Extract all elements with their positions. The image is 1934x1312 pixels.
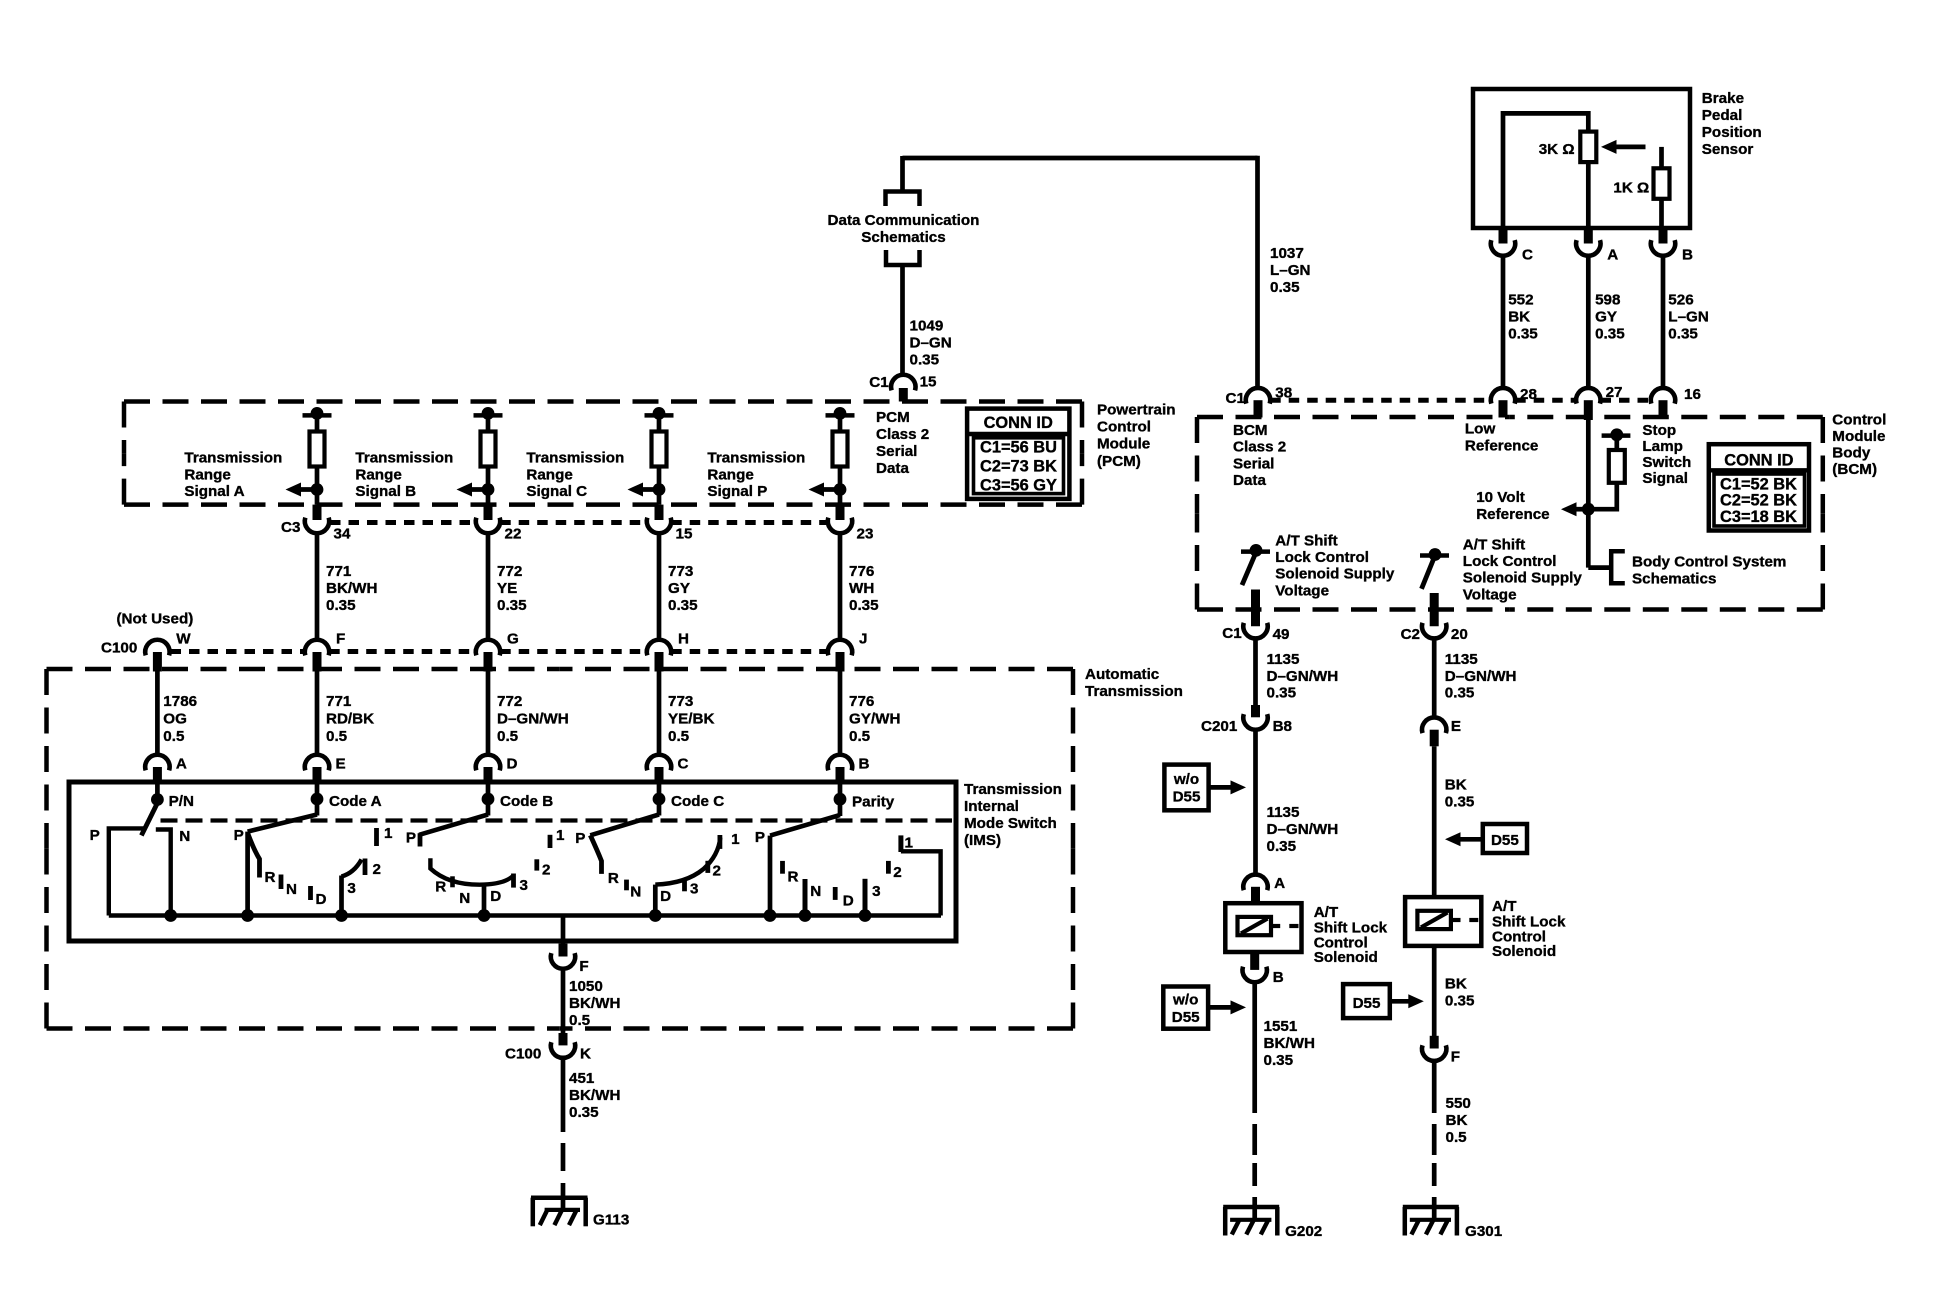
svg-text:49: 49 [1273,626,1290,643]
wire 451 dashed segment [561,1143,566,1171]
label: (PCM) [1097,453,1141,470]
label: wire 773 [668,693,693,710]
svg-text:C1: C1 [1226,390,1246,407]
label: wire 773 [668,563,693,580]
P contact tick (Code B) [418,833,423,846]
svg-text:K: K [580,1046,591,1063]
connector IMS pin F cup [551,953,575,969]
node: Code A input dot [311,793,324,806]
svg-text:Powertrain: Powertrain [1097,402,1176,419]
svg-text:Body: Body [1832,445,1871,462]
node: supply 1 dot [1250,544,1263,557]
IMS internal dashed line [161,818,953,822]
arrow: Transmission Range Signal A [286,483,318,497]
label: size 0.35 (bot) [1445,993,1475,1010]
svg-text:B: B [859,756,870,773]
wire 550 dashed seg 1 [1432,1124,1437,1155]
label: A/T Shift (1) [1275,532,1337,549]
svg-text:BK/WH: BK/WH [1264,1035,1315,1052]
label: w/o (1) [1173,771,1199,788]
label: Range [355,467,401,484]
label: color BK (top) [1445,777,1467,794]
label: w/o (2) [1172,992,1198,1009]
svg-text:H: H [678,631,689,648]
label: Pedal [1702,107,1743,124]
sensor pin A stub [1584,228,1593,244]
svg-text:CONN ID: CONN ID [1724,451,1793,469]
label: Parity [852,794,895,811]
svg-text:Solenoid: Solenoid [1314,949,1378,966]
svg-text:Body Control System: Body Control System [1632,554,1786,571]
label: size 0.5 [569,1012,591,1029]
resistor (PCM pull-up) col 3 [652,432,667,467]
svg-text:Code A: Code A [329,793,382,810]
label: wire 772 [497,693,522,710]
N contact wall (P/N loop right) [156,830,171,916]
svg-text:BK: BK [1445,777,1467,794]
connector C201 pin B8 cup [1243,714,1267,730]
svg-text:3K Ω: 3K Ω [1539,141,1575,158]
label: Class 2 (PCM) [876,426,929,443]
label: Voltage (1) [1275,582,1329,599]
label: G202 [1285,1223,1322,1240]
svg-text:Range: Range [184,467,230,484]
resistor 3K [1580,132,1596,163]
svg-text:0.35: 0.35 [497,597,527,614]
label: wire 772 [497,563,522,580]
svg-text:1135: 1135 [1267,651,1301,668]
svg-text:Code B: Code B [500,793,553,810]
label: Transmission [1085,683,1183,700]
label: wire color L-GN [1270,262,1311,279]
wire 1049 D-GN to PCM C1 pin 15 [900,265,905,375]
connector pin F cup (right) [1422,1045,1446,1061]
svg-text:1786: 1786 [163,693,197,710]
label: CONN ID header (BCM) [1724,451,1793,469]
svg-text:GY/WH: GY/WH [849,710,900,727]
svg-text:598: 598 [1595,292,1620,309]
label: Control (sol 1) [1314,935,1368,952]
w/o D55 tag box 1 [1164,765,1208,811]
svg-text:BK: BK [1445,976,1467,993]
connector pin 27 cup [1576,388,1600,420]
svg-text:451: 451 [569,1070,595,1087]
connector solenoid pin A cup [1243,875,1267,891]
svg-text:G301: G301 [1465,1223,1503,1240]
wire: into IMS P/N [155,783,160,800]
label: pin B (solenoid) [1273,969,1284,986]
svg-text:w/o: w/o [1172,992,1198,1009]
solenoid 2 dashed link [1453,918,1479,922]
label: wire 1135 (b) [1267,804,1301,821]
label: wire 598 [1595,292,1620,309]
wire: T-bar to resistor col 3 [657,415,662,432]
label: Voltage (2) [1463,586,1517,603]
contact 1 link to rail (Parity) [901,851,941,915]
sensor pin C stub [1499,228,1508,244]
svg-text:Lock Control: Lock Control [1463,553,1557,570]
label: Code C [671,793,724,810]
label: wire 1049 [910,318,944,335]
wire: resistor to junction col 3 [657,467,662,505]
wire 1135 to solenoid A [1253,730,1258,875]
svg-text:D–GN/WH: D–GN/WH [1267,821,1339,838]
label: D (Code B) [490,888,501,905]
junction: Code A P on rail [241,909,254,922]
label: 2 (Code A) [373,861,381,878]
svg-text:Reference: Reference [1476,506,1549,523]
label: size 0.35 [569,1104,599,1121]
node: signal source dot col 4 [834,407,847,420]
svg-text:552: 552 [1508,292,1533,309]
sensor pin B stub [1659,228,1668,244]
junction: Parity P on rail [764,909,777,922]
svg-text:0.35: 0.35 [1267,685,1297,702]
svg-text:P: P [575,830,585,847]
svg-text:P: P [406,829,416,846]
label: 10 Volt [1476,489,1525,506]
wire: Parity drop [838,800,843,816]
svg-text:C1: C1 [869,374,889,391]
wire: drop to data communication symbol [900,156,905,191]
svg-text:3: 3 [520,877,528,894]
label: 3 (Code B) [520,877,528,894]
wire: T-bar to resistor col 2 [486,415,491,432]
label: (Not Used) [117,611,194,628]
label: G113 [593,1212,629,1229]
svg-text:Module: Module [1832,428,1885,445]
label: Signal A [184,483,244,500]
label: pin F [579,958,588,975]
PCM CONN ID header divider [967,432,1069,436]
label: Class 2 [1233,439,1286,456]
contact 1 tick (Code C) [718,835,723,849]
svg-text:L–GN: L–GN [1270,262,1311,279]
svg-text:A/T: A/T [1314,904,1339,921]
svg-text:Range: Range [707,467,753,484]
wire 1551 dashed seg 2 [1252,1163,1257,1186]
label: wire 1037 [1270,245,1304,262]
R contact tick (Parity) [780,861,785,874]
label: size 0.35 [326,597,356,614]
connector C201 pin B8 stub [1251,705,1260,717]
label: Shift Lock (sol 1) [1314,920,1388,937]
svg-text:YE/BK: YE/BK [668,710,714,727]
svg-text:D: D [316,891,327,908]
BCM CONN ID table inner box [1714,474,1805,526]
connector row C3 dotted line seg 3 [671,520,828,525]
P contact to rail (Parity) [768,836,773,916]
svg-text:550: 550 [1446,1095,1471,1112]
label: pin B8 [1273,718,1292,735]
A/T shift lock control solenoid 1 box [1225,903,1301,952]
label: pin F [336,631,345,648]
svg-text:1135: 1135 [1445,651,1479,668]
P contact wall (P/N loop left) [109,828,144,915]
svg-text:Class 2: Class 2 [876,426,929,443]
svg-text:2: 2 [713,862,721,879]
wire 526 L-GN [1661,256,1666,389]
wire 451 to G113 [561,1183,566,1210]
label: P (Code A) [234,827,244,844]
w/o D55 tag box 2 [1163,987,1208,1029]
label: color BK [1508,309,1530,326]
connector pin F stub (right) [1430,1036,1439,1049]
svg-text:Position: Position [1702,124,1762,141]
svg-text:3: 3 [872,883,880,900]
connector row BCM dotted seg 3 [1601,398,1651,403]
label: Brake [1702,90,1744,107]
svg-text:P/N: P/N [169,793,194,810]
label: Signal C [526,483,587,500]
label: pin 38 [1275,385,1292,402]
arrow: Transmission Range Signal B [457,483,489,497]
svg-text:23: 23 [857,526,874,543]
wire BK 0.35 below solenoid 2 [1432,946,1437,1037]
connector IMS pin A cup [145,755,169,771]
wire: into IMS col 4 [838,783,843,800]
label: wire color D-GN [910,335,952,352]
label: Body [1832,445,1871,462]
junction: 10 volt reference node [1582,503,1595,516]
svg-text:Schematics: Schematics [861,229,945,246]
label: 2 (Code B) [542,861,550,878]
connector row C100 dotted line seg 2 [329,649,476,654]
label: N (Code B) [459,890,470,907]
label: 1 (Parity) [905,835,914,852]
wire 451 BK/WH to ground [561,1058,566,1132]
label: Internal [964,798,1019,815]
node: Parity input dot [834,793,847,806]
connector C3 pin 23 stub [836,505,845,520]
switch blade supply 1 [1242,555,1255,585]
svg-text:BK/WH: BK/WH [569,1087,620,1104]
wire: to body control system bracket [1588,565,1611,570]
connector IMS pin E cup [305,755,329,771]
node: signal source dot col 1 [311,407,324,420]
svg-text:PCM: PCM [876,409,910,426]
svg-text:J: J [859,631,867,648]
potentiometer wiper arrow [1601,140,1646,154]
svg-text:0.35: 0.35 [569,1104,599,1121]
svg-text:1: 1 [556,827,565,844]
svg-text:C2: C2 [1401,626,1420,643]
junction dot col 1 [311,483,324,496]
label: color D–GN/WH [497,710,569,727]
label: pin G [507,631,519,648]
svg-text:Transmission: Transmission [355,449,453,466]
svg-text:776: 776 [849,693,874,710]
label: color RD/BK [326,710,374,727]
connector IMS pin E stub [313,767,322,783]
label: Switch [1642,454,1691,471]
svg-text:Pedal: Pedal [1702,107,1743,124]
connector IMS pin D stub [484,767,493,783]
label: Solenoid (sol 2) [1492,943,1556,960]
connector C100 pin K stub [559,1033,568,1045]
connector C100 pin J stub [836,652,845,672]
label: 2 (Code C) [713,862,721,879]
svg-text:771: 771 [326,693,352,710]
label: Code B [500,793,553,810]
svg-text:C1: C1 [1222,625,1242,642]
label: C201 [1201,718,1238,735]
svg-text:1551: 1551 [1264,1018,1298,1035]
solenoid 2 coil diagonal [1421,913,1447,928]
svg-text:16: 16 [1684,386,1701,403]
wire 1551 to G202 [1252,1197,1257,1220]
connector IMS pin C stub [655,767,664,783]
label: size 0.35 (c) [1445,685,1475,702]
svg-text:A: A [1274,875,1285,892]
label: 1 (Code A) [384,825,393,842]
label: pin F (right) [1451,1049,1460,1066]
svg-text:0.5: 0.5 [497,728,519,745]
label: size 0.5 [668,728,690,745]
svg-text:N: N [810,883,821,900]
label: pin 15 [920,374,937,391]
label: Signal [1642,470,1688,487]
svg-text:Control: Control [1097,419,1151,436]
svg-text:Brake: Brake [1702,90,1744,107]
label: size 0.35 (1551) [1264,1052,1294,1069]
label: color D-GN/WH (b) [1267,821,1339,838]
wire 550 dashed seg 2 [1432,1163,1437,1186]
label: color D-GN/WH (a) [1267,668,1339,685]
label: Transmission [355,449,453,466]
connector pin E cup [1422,717,1446,733]
svg-text:F: F [336,631,345,648]
svg-text:0.5: 0.5 [569,1012,591,1029]
label: color GY/WH [849,710,900,727]
switch A/T shift lock supply 1 T-bar [1241,549,1270,554]
svg-text:2: 2 [893,864,901,881]
connector row C100 dotted line seg 4 [671,649,828,654]
connector C100 pin G stub [484,652,493,672]
junction: P/N output on rail [164,909,177,922]
label: size 0.5 [849,728,871,745]
label: wire 552 [1508,292,1533,309]
resistor (PCM pull-up) col 2 [481,432,496,467]
BCM CONN ID table outer box [1709,444,1809,530]
svg-text:0.5: 0.5 [668,728,690,745]
connector pin E stub [1430,730,1439,747]
svg-text:2: 2 [373,861,381,878]
svg-text:772: 772 [497,693,522,710]
arrow: Transmission Range Signal C [628,483,660,497]
svg-text:D: D [490,888,501,905]
svg-text:C2=73 BK: C2=73 BK [980,457,1057,475]
label: Range [526,467,572,484]
svg-text:0.35: 0.35 [1270,279,1300,296]
svg-text:0.35: 0.35 [1264,1052,1294,1069]
label: N (Parity) [810,883,821,900]
svg-text:N: N [179,828,190,845]
label: 3 (Code C) [690,881,698,898]
label: Data (PCM) [876,460,909,477]
wire: resistor to junction col 1 [315,467,320,505]
wire 1050 BK/WH to C100 K [561,969,566,1033]
off-page connector bracket (top) Data Communication [886,192,920,207]
N contact to rail (Parity) [803,879,808,916]
label: Powertrain [1097,402,1176,419]
resistor 1K [1654,168,1670,199]
svg-text:Transmission: Transmission [964,781,1062,798]
label: pin 20 [1451,626,1468,643]
solenoid 1 coil [1238,917,1272,935]
node: signal source dot col 2 [482,407,495,420]
label: wire size 0.35 [910,352,940,369]
label: color D-GN/WH (c) [1445,668,1517,685]
label: size 0.35 [1668,326,1698,343]
svg-text:Low: Low [1465,421,1496,438]
wire: supply 1 stub [1251,590,1260,627]
label: Schematics (BCS) [1632,571,1716,588]
label: Control (sol 2) [1492,929,1546,946]
connector row C100 dotted line seg 1 [171,649,305,654]
R contact tick (Code B) [450,876,455,887]
label: PCM [876,409,910,426]
connector pin 28 cup [1491,388,1515,418]
label: pin E [336,756,346,773]
wire 772 PCM to C100 [486,533,491,640]
wire: T-bar to resistor col 4 [838,415,843,432]
Brake Pedal Position Sensor box [1473,89,1690,228]
label: D (Code A) [316,891,327,908]
off-page bracket Body Control System [1611,551,1625,583]
label: pin 28 [1520,386,1537,403]
svg-text:0.35: 0.35 [1445,993,1475,1010]
label: R (Parity) [788,869,799,886]
label: Reference (10V) [1476,506,1549,523]
label: C1 (PCM connector) [869,374,889,391]
svg-text:N: N [630,884,641,901]
svg-text:773: 773 [668,563,693,580]
label: D55 (3) [1491,832,1519,849]
svg-text:R: R [435,878,446,895]
label: C1 (BCM connector) [1226,390,1246,407]
switch blade P/N [141,803,157,835]
svg-text:GY: GY [668,580,690,597]
label: Signal B [355,483,416,500]
connector C100 pin H cup [647,640,671,656]
R contact tail (Code C) [590,835,601,874]
label: Automatic [1085,666,1159,683]
svg-text:C100: C100 [101,640,137,657]
cam segment R-N-D-3 (Code B) [430,858,513,884]
svg-text:BK/WH: BK/WH [569,995,620,1012]
svg-text:C3: C3 [281,519,300,536]
contact 1 tick (Code A) [374,828,379,846]
svg-text:Voltage: Voltage [1463,586,1517,603]
svg-text:Transmission: Transmission [526,449,624,466]
connector IMS pin D cup [476,755,500,771]
label: pin D [507,756,518,773]
solenoid 1 coil diagonal [1241,919,1268,934]
connector IMS pin B stub [836,767,845,783]
label: Range [707,467,753,484]
arrow: w/o D55 (2) [1209,1000,1247,1014]
svg-text:Serial: Serial [1233,455,1274,472]
label: D (Code C) [660,888,671,905]
solenoid 1 dashed link [1273,924,1299,928]
svg-text:P: P [755,829,765,846]
wire: sensor pin C branch [1503,113,1588,243]
svg-text:Sensor: Sensor [1702,141,1754,158]
contact 1 tick (Code B) [548,835,553,848]
switch blade supply 2 [1422,558,1435,589]
label: C3=56 GY [980,476,1057,494]
